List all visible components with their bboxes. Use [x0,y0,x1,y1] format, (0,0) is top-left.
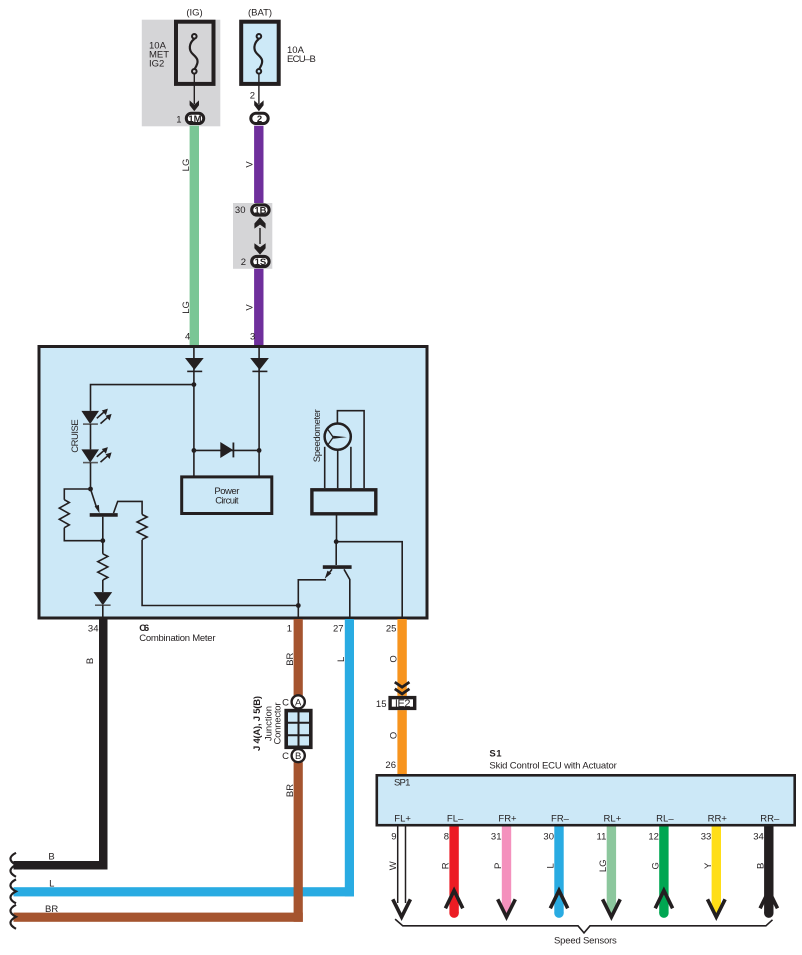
svg-text:FL–: FL– [447,814,464,825]
svg-text:2: 2 [250,91,255,102]
svg-text:B: B [48,852,54,863]
svg-text:Skid Control ECU with Actuator: Skid Control ECU with Actuator [489,760,616,771]
svg-text:R: R [441,862,452,869]
svg-text:FR–: FR– [551,814,570,825]
svg-text:34: 34 [753,832,764,843]
svg-text:B: B [755,863,766,869]
svg-text:9: 9 [391,832,396,843]
svg-text:30: 30 [235,205,246,216]
svg-text:Y: Y [703,862,714,869]
svg-text:V: V [245,304,256,311]
svg-text:1M: 1M [188,114,201,125]
svg-text:LG: LG [598,859,609,872]
svg-text:SP1: SP1 [394,778,410,789]
svg-text:Speed Sensors: Speed Sensors [554,935,617,946]
svg-text:W: W [388,861,399,870]
svg-text:A: A [295,697,302,708]
svg-text:27: 27 [333,624,344,635]
svg-text:2: 2 [241,257,246,268]
svg-text:B: B [295,751,301,762]
svg-text:34: 34 [88,624,99,635]
svg-text:L: L [546,863,557,868]
svg-text:1: 1 [176,115,181,126]
svg-text:J 4(A), J 5(B): J 4(A), J 5(B) [252,696,263,751]
svg-text:V: V [245,161,256,168]
svg-text:4: 4 [185,332,190,343]
svg-text:Connector: Connector [272,703,283,745]
svg-text:C: C [282,751,289,762]
svg-text:L: L [336,657,347,662]
svg-text:Combination Meter: Combination Meter [139,633,215,644]
svg-text:(IG): (IG) [186,7,202,18]
svg-text:(BAT): (BAT) [248,7,272,18]
svg-text:CRUISE: CRUISE [70,419,81,453]
svg-text:26: 26 [385,760,396,771]
svg-text:O: O [388,732,399,739]
svg-text:P: P [493,863,504,869]
svg-text:11: 11 [597,832,607,843]
svg-text:RR–: RR– [760,814,780,825]
svg-text:G: G [651,862,662,869]
svg-text:1: 1 [287,624,292,635]
svg-text:15: 15 [376,699,387,710]
svg-text:RR+: RR+ [708,814,728,825]
svg-text:Circuit: Circuit [215,496,239,507]
svg-text:1S: 1S [255,257,267,268]
svg-text:BR: BR [285,784,296,797]
svg-text:8: 8 [444,832,449,843]
svg-text:IE2: IE2 [395,698,411,710]
svg-text:ECU–B: ECU–B [287,54,316,65]
svg-text:2: 2 [257,114,262,125]
svg-text:1B: 1B [254,205,266,216]
svg-text:S 1: S 1 [489,748,502,759]
svg-text:FL+: FL+ [394,814,411,825]
svg-text:Speedometer: Speedometer [312,409,323,462]
svg-text:O: O [388,655,399,662]
svg-text:25: 25 [386,624,397,635]
svg-text:RL–: RL– [656,814,674,825]
svg-text:LG: LG [181,301,192,314]
svg-text:FR+: FR+ [498,814,517,825]
svg-text:30: 30 [543,832,554,843]
svg-text:BR: BR [285,652,296,665]
svg-text:3: 3 [250,332,255,343]
svg-text:RL+: RL+ [604,814,622,825]
svg-text:12: 12 [648,832,659,843]
svg-text:31: 31 [491,832,502,843]
svg-text:LG: LG [181,159,192,172]
svg-text:BR: BR [45,904,58,915]
svg-text:L: L [49,878,54,889]
svg-text:IG2: IG2 [149,58,164,69]
svg-text:33: 33 [701,832,712,843]
svg-text:B: B [85,658,96,664]
